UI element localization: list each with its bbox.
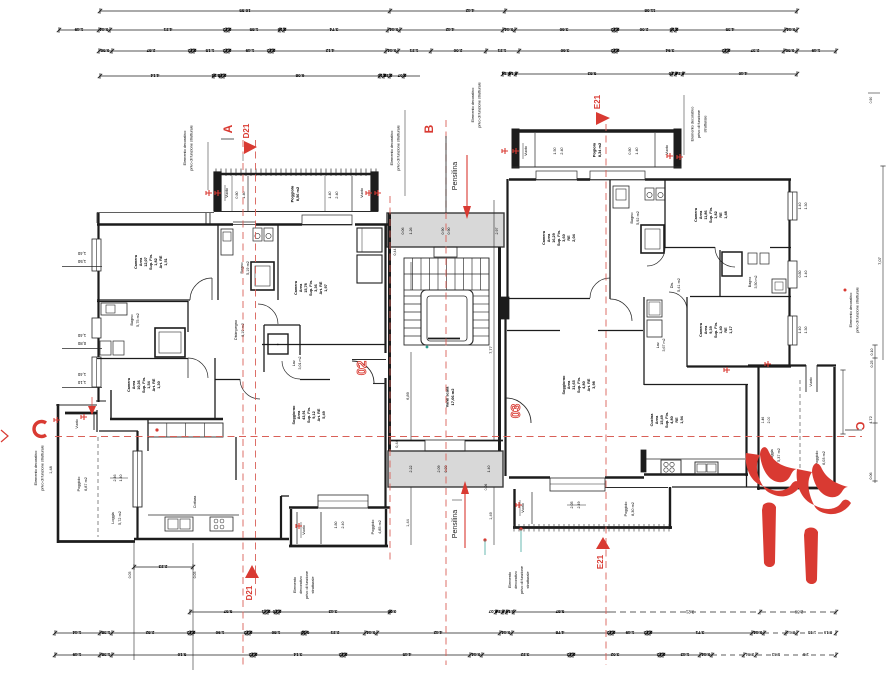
svg-text:4.42: 4.42: [465, 8, 474, 13]
bagno 5,92 fixtures: [613, 186, 629, 208]
svg-text:0.44: 0.44: [753, 630, 762, 635]
interior wall corridor south: [215, 379, 240, 381]
svg-text:0.44: 0.44: [504, 27, 513, 32]
bottom dim drop line x193: [192, 543, 194, 670]
svg-text:1.30: 1.30: [804, 327, 808, 334]
svg-text:Elemento decorativo: Elemento decorativo: [691, 107, 695, 142]
poggiolo 8,30 north edge line: [605, 487, 668, 489]
svg-text:Elemento: Elemento: [293, 577, 297, 593]
pensilina canopy top (grey): [387, 213, 504, 247]
bottom dim row 2: [55, 632, 764, 634]
svg-text:2.97: 2.97: [495, 228, 499, 235]
interior wall camera1186 south: [665, 247, 715, 249]
stair south wall with opening: [390, 440, 425, 442]
svg-text:privo di funzione strutturale: privo di funzione strutturale: [855, 287, 859, 333]
svg-text:0.12: 0.12: [338, 652, 347, 657]
svg-text:Lav.: Lav.: [292, 360, 296, 367]
red corner mark far left: [1, 430, 8, 442]
svg-text:Loggia: Loggia: [111, 511, 115, 523]
unit02 east wall shared with stairwell: [384, 224, 386, 353]
svg-text:8,56 m2: 8,56 m2: [295, 186, 300, 201]
dim 6,89 stair left: [410, 352, 412, 440]
section line C horizontal dashed: [55, 436, 862, 438]
svg-text:1.49: 1.49: [811, 48, 820, 53]
west wall jog at south-west corner: [96, 410, 98, 432]
svg-text:15,78: 15,78: [304, 283, 308, 293]
svg-text:0.10: 0.10: [870, 349, 874, 356]
bagno 5,75 shower dark: [155, 328, 185, 357]
svg-text:0.44: 0.44: [745, 652, 754, 657]
svg-text:0.12: 0.12: [606, 630, 615, 635]
bagno 3,50 fixtures: [748, 253, 757, 264]
svg-text:0.12: 0.12: [243, 630, 252, 635]
svg-text:3.21: 3.21: [685, 609, 694, 614]
svg-text:Camera: Camera: [694, 207, 698, 222]
red arrow pensilina bottom: [464, 492, 466, 548]
svg-text:1,82: 1,82: [714, 211, 718, 218]
svg-text:4.35: 4.35: [725, 27, 734, 32]
bottom marker triangle D21: [245, 565, 259, 578]
closet camera 15,78: [357, 228, 382, 252]
svg-text:0.44: 0.44: [786, 27, 795, 32]
svg-text:0.19: 0.19: [823, 630, 832, 635]
svg-text:1,40: 1,40: [77, 372, 86, 377]
svg-text:2.09: 2.09: [437, 466, 441, 473]
svg-text:1.49: 1.49: [625, 630, 634, 635]
leader line left text down: [207, 142, 209, 190]
unit02 west wall: [97, 213, 99, 239]
svg-text:3.14: 3.14: [293, 652, 302, 657]
unit03 entrance door arc: [506, 398, 531, 423]
svg-text:Bagno: Bagno: [130, 315, 134, 326]
svg-text:Vuoto: Vuoto: [360, 188, 364, 198]
svg-text:6.08: 6.08: [295, 73, 304, 78]
svg-text:0.50: 0.50: [785, 48, 794, 53]
loggia block west wall: [57, 404, 60, 543]
svg-text:Cucina: Cucina: [650, 413, 654, 427]
interior wall bagno519 / camera1578: [277, 224, 279, 300]
logo red ribbon wave: [746, 453, 763, 486]
svg-text:0.80: 0.80: [235, 191, 239, 198]
poggiolo 8,30 east wall: [669, 487, 671, 529]
vuoto window top of loggia block: [805, 365, 807, 392]
svg-text:0.07: 0.07: [397, 73, 406, 78]
svg-text:5.83: 5.83: [587, 71, 596, 76]
stair exit step: [425, 440, 465, 451]
interior wall camera12 / bagno519: [217, 224, 219, 300]
svg-text:5,49: 5,49: [322, 411, 326, 418]
dimension row 3 left: [99, 50, 519, 52]
svg-text:2.00: 2.00: [767, 417, 771, 424]
svg-text:Bagno: Bagno: [748, 277, 752, 287]
door arc camera1629: [590, 278, 610, 298]
svg-text:Elemento decorativo: Elemento decorativo: [471, 88, 475, 123]
svg-text:Elemento decorativo: Elemento decorativo: [34, 451, 38, 486]
balcony left end wall: [214, 172, 221, 211]
teal mark below stair void: [426, 346, 429, 349]
dim 2.23 bottom left: [134, 566, 193, 568]
stair right flight treads: [473, 295, 489, 297]
window frame north with sill: [302, 215, 352, 225]
svg-text:0.44: 0.44: [701, 652, 710, 657]
window box west 3: [92, 357, 101, 387]
soggiorno south wall with french door: [509, 476, 550, 479]
svg-text:Sup. Fin.: Sup. Fin.: [557, 230, 561, 246]
svg-text:strutturale: strutturale: [704, 116, 708, 133]
svg-text:Art. RE: Art. RE: [319, 281, 323, 294]
svg-text:4.42: 4.42: [433, 630, 442, 635]
svg-text:Vuoto: Vuoto: [665, 145, 669, 155]
unit02 north wall: [97, 223, 233, 226]
svg-text:3,60: 3,60: [562, 234, 566, 241]
section label C left: [34, 422, 46, 437]
french door box soggiorno south: [550, 478, 605, 491]
svg-text:0.05: 0.05: [128, 572, 132, 579]
svg-text:4,85 m2: 4,85 m2: [378, 520, 382, 534]
bagno 5,19 wc and bidet: [253, 228, 262, 241]
svg-text:decorativo: decorativo: [514, 571, 518, 589]
door arc soggiorno1: [240, 379, 260, 399]
svg-text:0.12: 0.12: [300, 630, 309, 635]
svg-text:0.10: 0.10: [272, 609, 281, 614]
svg-text:1,40: 1,40: [77, 251, 86, 256]
svg-text:Area: Area: [567, 380, 571, 389]
interior wall camera1629 east: [609, 180, 611, 299]
corridor arcs: [610, 299, 632, 321]
svg-text:1.50: 1.50: [553, 147, 557, 154]
svg-text:Bagno: Bagno: [630, 213, 634, 224]
right dim line 7,07: [882, 166, 884, 360]
kitchen west wall: [136, 431, 138, 451]
svg-text:2.40: 2.40: [560, 147, 564, 154]
svg-text:1.49: 1.49: [245, 48, 254, 53]
balcony vuoto divider left: [247, 176, 249, 211]
svg-text:31,65: 31,65: [572, 380, 576, 390]
svg-text:02: 02: [354, 361, 369, 375]
svg-text:0.12: 0.12: [186, 630, 195, 635]
svg-text:5,72 m2: 5,72 m2: [118, 511, 122, 525]
svg-text:Area: Area: [547, 233, 551, 242]
balcony 8,34 bottom edge: [512, 166, 681, 168]
svg-text:Elemento decorativo: Elemento decorativo: [390, 131, 394, 166]
interior wall lav301: [264, 324, 300, 326]
svg-text:0.12: 0.12: [187, 48, 196, 53]
svg-text:5,19 m2: 5,19 m2: [246, 261, 250, 275]
interior wall soggiorno north / corridor: [507, 330, 560, 332]
svg-text:RE: RE: [567, 235, 571, 241]
svg-text:9,39: 9,39: [709, 326, 713, 333]
unit02 entrance door arc from stairwell: [352, 361, 374, 383]
svg-text:strutturale: strutturale: [526, 572, 530, 589]
svg-text:Art. RE: Art. RE: [152, 378, 156, 391]
svg-text:1.80: 1.80: [271, 630, 280, 635]
kitchen counter edge: [148, 514, 239, 516]
loggia block south wall: [59, 540, 135, 543]
svg-text:Camera: Camera: [294, 280, 298, 295]
svg-text:0,44: 0,44: [393, 249, 397, 256]
dimension row 1 total widths 10.55 / 4.42 / 11.08: [100, 10, 797, 12]
svg-text:4.21: 4.21: [163, 27, 172, 32]
stair central void: [421, 290, 473, 345]
window frame to balcony834 right: [590, 171, 645, 180]
svg-text:1.40: 1.40: [487, 466, 491, 473]
svg-text:1.85: 1.85: [249, 27, 258, 32]
svg-text:E21: E21: [593, 94, 602, 109]
svg-text:8,34 m2: 8,34 m2: [597, 142, 602, 157]
svg-text:0.44: 0.44: [99, 27, 108, 32]
svg-text:1,40: 1,40: [77, 333, 86, 338]
svg-text:0.10: 0.10: [508, 71, 517, 76]
svg-text:Poggiolo: Poggiolo: [624, 502, 628, 517]
bagno 5,75 washbasin counter: [101, 303, 127, 315]
svg-text:0.80: 0.80: [798, 271, 802, 278]
svg-text:0.10: 0.10: [217, 73, 226, 78]
svg-text:RE: RE: [724, 327, 728, 333]
cucina north wall: [644, 384, 748, 386]
bottom dim row 3 dashed tail: [712, 654, 836, 656]
svg-text:0.12: 0.12: [610, 27, 619, 32]
svg-text:Area: Area: [299, 283, 303, 292]
svg-text:1.15: 1.15: [205, 48, 214, 53]
window box west 2: [92, 318, 101, 338]
bottom dim row 1 right: [496, 611, 610, 613]
unit03 east wall: [788, 179, 790, 192]
svg-text:Vuoto: Vuoto: [75, 419, 79, 428]
svg-text:2.22: 2.22: [409, 466, 413, 473]
svg-text:Sup. Fin.: Sup. Fin.: [709, 207, 713, 223]
vuoto strip poggiolo830: [531, 492, 533, 524]
leader line mid text down: [404, 110, 406, 196]
svg-text:1,17: 1,17: [729, 326, 733, 333]
dimension row 4 right: [503, 73, 797, 75]
svg-text:0.44: 0.44: [501, 630, 510, 635]
interior wall disimpegno west: [187, 301, 189, 332]
svg-text:0.06: 0.06: [869, 473, 873, 480]
stairwell west wall: [388, 213, 391, 451]
svg-text:C: C: [853, 422, 867, 431]
svg-text:7,07: 7,07: [877, 256, 882, 265]
unit03 lower west wall along stair: [504, 307, 506, 476]
svg-text:1,51: 1,51: [164, 258, 168, 265]
svg-text:Vuoto: Vuoto: [302, 525, 306, 535]
svg-text:0.44: 0.44: [389, 27, 398, 32]
svg-text:3,98: 3,98: [592, 381, 596, 388]
svg-text:1.21: 1.21: [497, 48, 506, 53]
svg-text:A: A: [221, 124, 235, 133]
poggiolo 8,30 south wall with hatch: [513, 526, 672, 529]
svg-text:Area: Area: [139, 257, 143, 266]
svg-text:Lav.: Lav.: [656, 342, 660, 349]
vuoto strip in poggiolo 4,85: [296, 512, 298, 544]
svg-text:0.24: 0.24: [383, 73, 392, 78]
svg-text:D21: D21: [242, 123, 251, 138]
svg-text:Sup. Fin.: Sup. Fin.: [149, 254, 153, 270]
balcony 8,34 right end wall: [674, 129, 681, 168]
svg-text:0.80: 0.80: [628, 147, 632, 154]
svg-text:3.94: 3.94: [665, 48, 674, 53]
svg-text:2.40: 2.40: [335, 191, 339, 198]
svg-text:1.40: 1.40: [804, 271, 808, 278]
svg-text:0.90: 0.90: [447, 228, 451, 235]
svg-text:Pensilina: Pensilina: [452, 510, 459, 539]
window frame to balcony834 left: [536, 171, 577, 180]
svg-text:0.44: 0.44: [387, 48, 396, 53]
balcony bottom edge: [214, 211, 378, 213]
balcony door frame north: [233, 224, 255, 226]
bagno 5,75 wc bidet: [100, 341, 111, 355]
svg-text:1.26: 1.26: [409, 228, 413, 235]
svg-text:0.44: 0.44: [471, 652, 480, 657]
svg-text:15,49: 15,49: [660, 415, 664, 425]
door arc camera12: [190, 278, 212, 300]
svg-text:1,40: 1,40: [719, 326, 723, 333]
stairwell east wall: [498, 247, 501, 451]
pensilina canopy bottom (grey): [388, 451, 503, 487]
svg-text:0.44: 0.44: [366, 630, 375, 635]
kitchen / soggiorno divider: [235, 437, 237, 480]
right dim line above loggia block: [842, 370, 844, 434]
svg-text:1,97: 1,97: [324, 284, 328, 291]
stair direction arrow: [410, 262, 412, 290]
svg-text:0.16: 0.16: [277, 27, 286, 32]
dimension row 2 right: [401, 29, 797, 31]
french door to poggiolo 4,85: [318, 495, 368, 508]
stair flight outline: [404, 258, 489, 345]
svg-text:0.12: 0.12: [721, 48, 730, 53]
svg-text:Elemento: Elemento: [508, 572, 512, 588]
soggiorno southwest wall piece: [280, 496, 282, 540]
right dim line segments: [874, 345, 876, 483]
interior wall camera12 bottom: [97, 299, 190, 301]
svg-text:Vuoto: Vuoto: [225, 188, 229, 198]
cucina west pillar: [641, 450, 646, 472]
svg-text:1.46: 1.46: [761, 417, 765, 424]
svg-text:5.10: 5.10: [177, 652, 186, 657]
dim 1,49 below pensilina right: [493, 487, 495, 545]
svg-text:4.12: 4.12: [325, 48, 334, 53]
svg-text:Elemento decorativo: Elemento decorativo: [849, 293, 853, 328]
svg-text:1,82: 1,82: [154, 258, 158, 265]
dimension row 2 left: [59, 29, 401, 31]
balcony vuoto divider right: [351, 176, 353, 211]
svg-text:1.38: 1.38: [101, 652, 110, 657]
svg-text:2.37: 2.37: [750, 48, 759, 53]
door arc lav: [282, 361, 300, 379]
bottom dim drop line x134: [133, 543, 135, 660]
svg-text:2.00: 2.00: [639, 27, 648, 32]
wardrobe row below camera1036: [148, 423, 223, 437]
svg-text:0.12: 0.12: [248, 652, 257, 657]
svg-text:2.21: 2.21: [330, 630, 339, 635]
svg-text:Vano scala: Vano scala: [444, 386, 449, 407]
svg-text:2.82: 2.82: [145, 630, 154, 635]
svg-text:0.10: 0.10: [505, 609, 514, 614]
door arc camera939: [669, 292, 687, 310]
svg-text:3,67 m2: 3,67 m2: [662, 339, 666, 352]
svg-text:Poggiolo: Poggiolo: [371, 520, 375, 535]
cucina counter: [646, 458, 745, 460]
svg-text:Camera: Camera: [699, 322, 703, 337]
svg-text:5.87: 5.87: [555, 609, 564, 614]
svg-text:0.15: 0.15: [669, 27, 678, 32]
svg-text:0,44: 0,44: [395, 440, 399, 447]
svg-text:0.12: 0.12: [222, 27, 231, 32]
svg-text:privo di funzione strutturale: privo di funzione strutturale: [396, 125, 400, 171]
svg-text:1.49: 1.49: [72, 652, 81, 657]
svg-text:1.13: 1.13: [807, 630, 816, 635]
svg-text:1,94: 1,94: [680, 415, 684, 423]
dimension row 4 left: [100, 75, 420, 77]
svg-text:3.22: 3.22: [520, 652, 529, 657]
bottom dim row 3: [55, 654, 712, 656]
svg-text:Sup. Fin.: Sup. Fin.: [142, 377, 146, 393]
window box west 1: [92, 239, 101, 271]
lav 3,67 fixtures: [647, 300, 662, 317]
svg-text:strutturale: strutturale: [311, 577, 315, 594]
svg-text:Pensilina: Pensilina: [452, 162, 459, 191]
svg-text:Area: Area: [132, 380, 136, 389]
svg-text:1.44: 1.44: [72, 630, 81, 635]
bottom dim row 2 dashed tail: [764, 632, 836, 634]
svg-text:Area: Area: [297, 410, 301, 419]
svg-text:2.23: 2.23: [158, 564, 167, 569]
svg-text:Elemento decorativo: Elemento decorativo: [183, 131, 187, 166]
svg-text:privo di funzione: privo di funzione: [697, 110, 701, 138]
svg-text:Poggiolo: Poggiolo: [289, 185, 294, 202]
svg-text:0.25: 0.25: [870, 361, 874, 368]
svg-text:Pogiolo: Pogiolo: [591, 142, 596, 157]
svg-text:decorativo: decorativo: [299, 576, 303, 594]
svg-text:11.08: 11.08: [644, 8, 656, 13]
svg-text:Sup. Fin.: Sup. Fin.: [714, 322, 718, 338]
right dim small top: [868, 92, 880, 94]
svg-text:E21: E21: [596, 554, 605, 569]
svg-text:2.00: 2.00: [453, 48, 462, 53]
svg-text:RE: RE: [675, 417, 679, 423]
svg-text:1.38: 1.38: [101, 630, 110, 635]
svg-text:Art. RE: Art. RE: [159, 255, 163, 268]
red dot markers with teal leaders: [155, 428, 158, 431]
svg-text:6,03 m2: 6,03 m2: [822, 451, 826, 465]
kitchen window box west: [133, 451, 142, 507]
pillar between stairwell and unit03: [500, 297, 509, 319]
svg-text:Disimpegno: Disimpegno: [234, 320, 238, 340]
svg-text:Vuoto: Vuoto: [524, 146, 528, 156]
balcony poggiolo 4,85 south wall: [289, 545, 388, 548]
balcony poggiolo 4,85 west wall: [290, 509, 292, 547]
svg-text:Sup. Fin.: Sup. Fin.: [307, 407, 311, 423]
svg-text:1.43: 1.43: [680, 652, 689, 657]
loggia block north walls and vuoto notch: [56, 404, 97, 406]
svg-text:8,30 m2: 8,30 m2: [631, 502, 635, 516]
interior wall lav367 west: [643, 297, 645, 385]
stair entry step: [434, 247, 457, 257]
svg-text:7,77: 7,77: [488, 345, 493, 354]
svg-text:Soggiorno: Soggiorno: [562, 375, 566, 395]
svg-text:0.12: 0.12: [610, 48, 619, 53]
svg-text:1.43: 1.43: [771, 652, 780, 657]
interior wall camera1629 south: [507, 298, 590, 300]
lav 3,01 shower: [268, 334, 288, 354]
logo bar 1: [762, 503, 776, 567]
section marker triangle E21 top: [596, 112, 610, 125]
svg-text:4,80: 4,80: [670, 416, 674, 423]
svg-text:1.80: 1.80: [334, 522, 338, 529]
door arc camera1186: [715, 247, 735, 267]
stair top flight treads: [412, 258, 414, 290]
svg-text:3.43: 3.43: [328, 609, 337, 614]
wall jog below balcony left end: [205, 213, 207, 224]
